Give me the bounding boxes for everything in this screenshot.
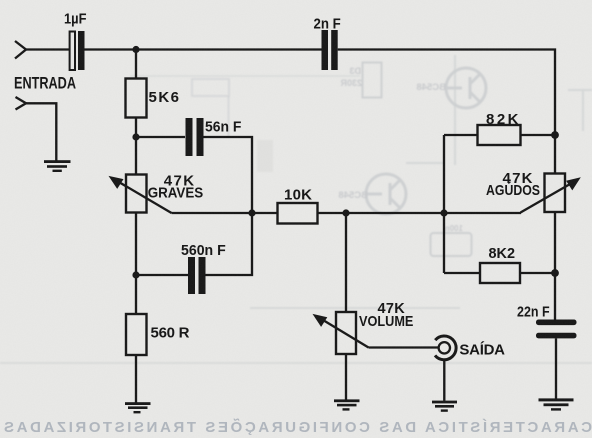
wire 560R to ground bbox=[135, 355, 137, 403]
wire mid to agudos branch node F bbox=[444, 212, 521, 214]
wire branch rail left bbox=[443, 135, 445, 273]
wire 5K6 to node B bbox=[135, 118, 137, 175]
node B bbox=[132, 133, 139, 140]
resistor 8K2 bbox=[480, 263, 520, 283]
potentiometer 47K GRAVES bbox=[126, 175, 147, 213]
label 47K AGUDOS bbox=[486, 170, 540, 199]
node C bbox=[248, 209, 255, 216]
node D bbox=[132, 271, 139, 278]
wire GRAVES bottom to node D bbox=[135, 213, 137, 315]
ground (22nF) bbox=[539, 398, 574, 410]
wiper arrow GRAVES bbox=[109, 176, 172, 213]
ground (input) bbox=[44, 160, 71, 172]
ghost mirrored caption at bottom bbox=[4, 418, 592, 436]
wire wiper line to 10K bbox=[172, 212, 278, 214]
wire node D to 560nF bbox=[136, 274, 188, 276]
wire 2nF to right rail bbox=[338, 50, 555, 174]
wire 22nF to ground bbox=[555, 338, 557, 398]
node F bbox=[440, 209, 447, 216]
ground (560R) bbox=[125, 402, 151, 413]
input arrow ENTRADA signal bbox=[15, 41, 26, 59]
wire SAIDA to ground bbox=[443, 359, 445, 400]
capacitor 1uF bbox=[70, 31, 85, 70]
wire VOLUME to ground bbox=[345, 354, 347, 400]
capacitor 56nF bbox=[186, 118, 204, 156]
wiper arrow AGUDOS bbox=[521, 177, 581, 212]
node H bbox=[551, 269, 559, 277]
resistor 5K6 bbox=[126, 79, 147, 118]
ghost wires right bbox=[0, 55, 592, 363]
wire 56nF to node C bbox=[204, 137, 253, 213]
ghost wire vertical bbox=[371, 50, 373, 311]
ghost resistor (bleed-through) bbox=[340, 63, 382, 98]
wire 82K to right rail bbox=[521, 134, 556, 136]
resistor 560R bbox=[126, 314, 147, 355]
wire input to C1 bbox=[26, 48, 69, 50]
node E volume tap bbox=[342, 209, 349, 216]
input arrow ground lead bbox=[16, 97, 27, 110]
ghost capacitor box bbox=[431, 224, 472, 256]
ground (volume) bbox=[334, 399, 360, 410]
resistor 82K bbox=[478, 125, 521, 145]
capacitor 560nF bbox=[188, 257, 206, 294]
wire AGUDOS rail segment bbox=[554, 212, 556, 320]
node G bbox=[551, 131, 559, 139]
wire wiper to SAIDA jack bbox=[369, 346, 439, 348]
potentiometer 47K AGUDOS bbox=[545, 174, 566, 213]
node A bbox=[132, 46, 139, 53]
wire node E down to volume bbox=[345, 213, 347, 312]
wire rail to 8K2 bbox=[444, 272, 480, 274]
label 47K VOLUME bbox=[359, 301, 413, 330]
wiper arrow VOLUME bbox=[313, 314, 369, 348]
wire rail to 82K bbox=[444, 134, 478, 136]
wire arrow to ground bbox=[26, 103, 56, 160]
ghost transistor BC548 lower bbox=[338, 174, 406, 214]
wire 560nF to node C bbox=[206, 213, 253, 275]
wire node B to 56nF bbox=[136, 136, 185, 138]
ground (saida) bbox=[432, 401, 457, 412]
wire node A down bbox=[135, 50, 137, 79]
wire 8K2 to right rail bbox=[520, 272, 555, 274]
resistor 10K bbox=[278, 203, 318, 224]
connector SAIDA jack bbox=[435, 336, 456, 360]
label 47K GRAVES bbox=[148, 173, 204, 202]
capacitor 2nF bbox=[322, 30, 338, 70]
ghost resistor horizontal bbox=[192, 79, 229, 137]
ghost smudge bbox=[257, 140, 273, 172]
capacitor 22nF bbox=[536, 320, 577, 339]
wire 10K to node F bbox=[318, 212, 445, 214]
wire C1 to node A bbox=[85, 48, 322, 50]
ghost transistor BC548 upper bbox=[416, 68, 486, 108]
potentiometer 47K VOLUME bbox=[336, 312, 356, 354]
